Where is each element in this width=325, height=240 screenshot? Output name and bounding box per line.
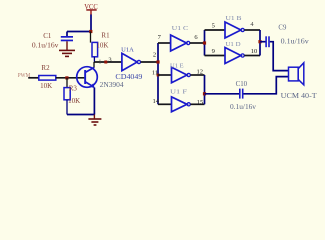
resistor R1 [91,32,111,63]
transistor Q1 2N3904 [77,62,125,115]
wire U1C out [190,42,205,44]
svg-text:10K: 10K [40,82,52,90]
svg-text:9: 9 [212,48,215,55]
svg-text:C1: C1 [43,32,52,40]
node bus/U1E [157,74,160,77]
svg-text:UCM 40-T: UCM 40-T [281,93,318,100]
svg-text:U1 B: U1 B [226,15,242,22]
wire C1 top [67,31,92,33]
wire input bus vertical [157,43,159,104]
wire to C10 [205,93,240,95]
node on wire [104,61,107,64]
wire E/F output bus [204,75,206,104]
wire R3 bottom to emitter [67,114,94,116]
svg-text:11: 11 [152,69,158,76]
wire U1A out [141,61,158,63]
wire C9 to speaker [270,42,289,71]
wire to C9 [260,41,266,43]
ground under C1 [59,50,75,58]
svg-text:2N3904: 2N3904 [100,82,125,89]
wire to U1B [205,29,226,31]
svg-text:U1A: U1A [121,47,134,54]
svg-text:10K: 10K [96,42,108,50]
wire to U1E [158,74,172,76]
svg-text:0.1u/16v: 0.1u/16v [281,38,310,45]
svg-text:U1 E: U1 E [170,62,184,69]
svg-text:10: 10 [251,48,258,55]
svg-text:U1 C: U1 C [172,25,189,32]
wire U1B out [244,29,260,31]
svg-text:2: 2 [153,52,156,59]
svg-text:0.1u/16v: 0.1u/16v [230,104,257,111]
svg-text:10K: 10K [68,97,80,105]
node junction base/R3 [65,76,68,79]
resistor R2 [39,64,56,90]
op-amp U1F (inverter) [170,89,190,112]
node C9 tap [258,40,261,43]
svg-text:CD4049: CD4049 [115,73,142,81]
wire U1F out [190,103,204,105]
wire input [28,77,39,79]
node bus/U1A [156,60,159,63]
op-amp U1D (inverter) [225,41,244,64]
node split [203,41,206,44]
wire C10 to speaker [244,77,289,94]
node C10 tap [203,92,206,95]
op-amp U1B (inverter) [225,15,244,38]
node junction VCC/R1/C1 [89,30,92,33]
wire U1D out [244,55,260,57]
wire to U1C [158,42,171,44]
resistor R3 [64,78,80,115]
power VCC [84,3,98,15]
wire split bus B/D inputs [204,30,206,56]
op-amp U1E (inverter) [170,62,190,82]
svg-text:R3: R3 [69,84,78,92]
wire collector node to U1A [94,61,122,63]
svg-text:U1 F: U1 F [170,89,188,96]
svg-text:14: 14 [153,98,160,105]
svg-text:C9: C9 [278,24,287,31]
wire U1E out [190,74,204,76]
svg-text:3: 3 [108,56,111,63]
svg-text:U1 D: U1 D [226,41,242,48]
svg-text:R2: R2 [41,64,50,72]
svg-text:5: 5 [212,23,215,30]
svg-text:C10: C10 [236,81,248,88]
wire to U1D [205,55,226,57]
wire VCC vertical [90,15,92,32]
svg-text:R1: R1 [101,32,110,40]
svg-text:1: 1 [99,60,102,66]
capacitor C9 [265,24,309,47]
op-amp U1C (inverter) [171,25,190,51]
capacitor C1 [32,32,73,51]
svg-text:0.1u/16v: 0.1u/16v [32,41,59,49]
wire right bus B/D outputs [259,30,261,56]
wire to U1F [158,103,172,105]
wire R2 to base [56,77,85,79]
capacitor C10 [230,81,257,111]
op-amp U1A (inverter) [115,47,142,81]
ground under emitter [88,115,101,126]
speaker LS1 UCM40-T [281,63,318,100]
